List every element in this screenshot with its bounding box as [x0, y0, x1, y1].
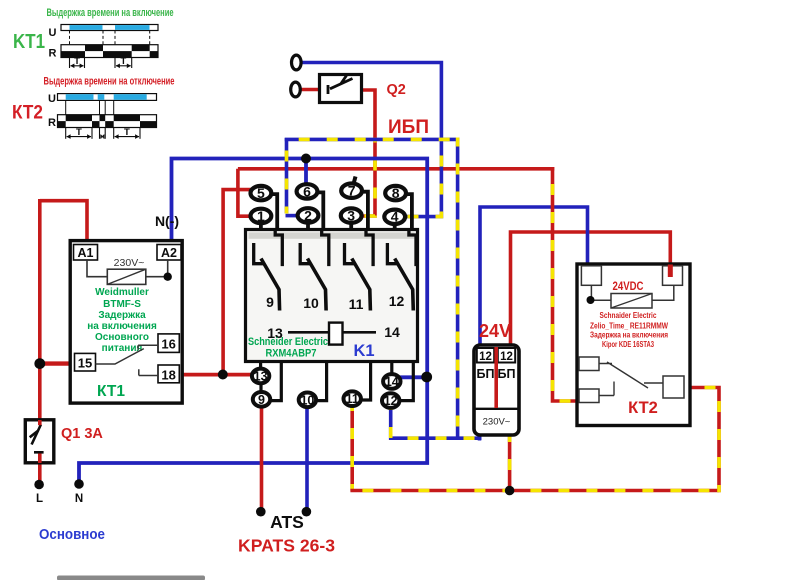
svg-text:230V~: 230V~: [483, 417, 511, 428]
wire red K1 pin1 riser to top rail: [238, 169, 252, 216]
K1 bottom pin 12: [382, 393, 399, 408]
wire red main riser L-Q1-junction-A1: [38, 199, 42, 426]
junction KT1-18 rail: [218, 370, 228, 380]
svg-text:на включения: на включения: [87, 321, 157, 332]
wire blue terminal to bypass rail: [301, 63, 442, 142]
wire cable dashed blue-yellow right drop to PSU230 run: [456, 138, 460, 441]
Q1 wire stub bottom inside: [38, 454, 42, 464]
K1 bottom connector to pin 9: [271, 362, 281, 401]
svg-text:Основного: Основного: [95, 332, 149, 343]
svg-text:N: N: [75, 493, 83, 505]
KT1 coil: [87, 260, 168, 284]
K1 pin 1: [251, 209, 272, 223]
svg-text:Schneider Electric: Schneider Electric: [248, 336, 328, 348]
KT2 coil: [591, 285, 673, 308]
svg-text:БП: БП: [498, 367, 516, 381]
junction neutral to pin14: [421, 372, 432, 383]
K1 bottom pin 14: [383, 374, 400, 389]
KT2 terminal right NO: [663, 376, 684, 398]
scan smudge bottom left: [57, 576, 205, 580]
K1 bottom connector to pin 10: [317, 362, 327, 401]
svg-text:10: 10: [300, 393, 314, 407]
svg-text:24VDC: 24VDC: [613, 281, 644, 293]
svg-text:RXM4ABP7: RXM4ABP7: [266, 348, 317, 360]
KT1 terminal 15: [75, 353, 96, 371]
K1 pin 2: [298, 208, 319, 222]
K1 inner top shading: [249, 232, 415, 238]
K1 pin 3: [341, 208, 362, 222]
svg-text:Weidmuller: Weidmuller: [95, 287, 149, 298]
KT2 coil junction dot: [587, 296, 595, 304]
K1 contact pole: [387, 230, 416, 311]
K1 bottom connector to pin 11: [362, 362, 371, 401]
wire blue K1 pin10 to ATS: [305, 407, 309, 508]
circuit breaker Q2 box: [320, 75, 362, 103]
K1 pin 7 stub: [360, 192, 368, 231]
wire cable dashed blue-yellow K1 pin2 riser: [285, 138, 289, 214]
svg-text:L: L: [36, 493, 43, 505]
svg-text:6: 6: [303, 183, 311, 199]
K1 pin 4: [384, 210, 405, 224]
K1 pin 8 stub: [404, 194, 412, 230]
K1 bottom link 13-9: [259, 383, 262, 392]
wire red riser to K1 pin 5: [223, 190, 251, 375]
KT1 terminal 16: [158, 334, 179, 353]
svg-text:A2: A2: [161, 246, 177, 260]
svg-text:12: 12: [389, 293, 405, 309]
svg-text:R: R: [49, 48, 57, 60]
svg-text:N(-): N(-): [155, 213, 179, 229]
KT1 coil junction dot: [164, 273, 172, 281]
svg-text:1: 1: [257, 208, 265, 224]
timing diagram KT1 (on-delay): [13, 7, 174, 68]
power supply PSU box: [474, 345, 519, 435]
junction phase KT1-15: [34, 358, 45, 369]
wire red terminal to Q2 breaker: [300, 88, 320, 92]
K1 pin 5 stub: [269, 194, 277, 230]
junction PSU 230 drop: [505, 486, 515, 496]
KT1 description text: [87, 287, 157, 354]
svg-text:8: 8: [392, 185, 400, 201]
svg-text:11: 11: [346, 392, 359, 406]
K1 pin 6 stub: [315, 192, 323, 230]
K1 pin 5: [251, 186, 272, 200]
KT2 description text: [590, 311, 668, 349]
svg-text:Основное: Основное: [39, 527, 105, 543]
svg-text:12: 12: [500, 351, 513, 363]
svg-text:15: 15: [78, 356, 92, 371]
svg-text:14: 14: [385, 375, 399, 389]
KT2 wire stub into A1 terminal: [668, 265, 673, 278]
K1 pin 1 stub: [259, 222, 263, 231]
svg-text:КТ2: КТ2: [12, 103, 43, 124]
wire blue K1 pin2 stub: [286, 214, 299, 218]
svg-text:BTMF-S: BTMF-S: [103, 299, 141, 310]
svg-text:3: 3: [347, 208, 355, 224]
svg-text:11: 11: [349, 296, 364, 312]
svg-text:ATS: ATS: [270, 512, 304, 532]
svg-text:K1: K1: [353, 342, 374, 360]
timer relay KT2 box: [577, 264, 690, 426]
junction neutral to pin6: [301, 154, 311, 164]
K1 pin 2 stub: [306, 221, 310, 230]
wire red KT1 pin18 to K1 pin13: [179, 373, 252, 377]
svg-text:Выдержка времени на отключение: Выдержка времени на отключение: [44, 76, 175, 88]
wire cable dashed red-yellow PSU 230V drop: [508, 434, 512, 491]
svg-text:T: T: [76, 127, 82, 138]
K1 contact pole: [300, 230, 329, 311]
wire cable dashed blue-yellow K1 pin12 to PSU 230V: [391, 407, 480, 438]
K1 bottom connector to pin 12: [400, 362, 413, 401]
wire blue K1 pin14 to neutral riser: [399, 375, 428, 379]
wire cable dashed red-yellow KT2 NO to generator run: [684, 388, 720, 493]
circuit breaker Q1 box: [25, 420, 54, 463]
svg-text:24V: 24V: [479, 321, 511, 341]
K1 pin 3 stub: [349, 222, 353, 231]
K1 bottom stub pin 14: [390, 362, 393, 375]
svg-text:KT1: KT1: [13, 31, 45, 53]
svg-text:КТ2: КТ2: [628, 399, 658, 417]
K1 coil 13-14: [288, 323, 376, 345]
KT1 terminal A1: [74, 245, 98, 261]
KT2 terminal bottom left lower: [579, 389, 599, 403]
wire cable dashed blue-yellow top run: [285, 138, 458, 142]
svg-text:T: T: [124, 127, 130, 138]
svg-text:12: 12: [384, 394, 398, 408]
svg-text:Q2: Q2: [387, 82, 406, 98]
svg-text:A1: A1: [78, 246, 94, 260]
wire cable dashed red-yellow top rail drop to KT2: [553, 167, 579, 401]
K1 bottom pin 10: [299, 393, 316, 408]
KT1 terminal A2: [157, 245, 181, 261]
terminal ellipse UPS line: [292, 55, 302, 70]
svg-text:12: 12: [479, 351, 492, 363]
K1 bottom pin 11: [344, 391, 361, 406]
K1 bottom pin 13: [252, 369, 269, 384]
KT2 switch contact: [599, 362, 663, 396]
svg-text:Задержка на включения: Задержка на включения: [590, 331, 668, 340]
svg-text:9: 9: [258, 393, 265, 407]
PSU cell 12 left: [477, 348, 494, 363]
terminal ATS left dot: [256, 507, 266, 517]
svg-text:4: 4: [391, 209, 399, 225]
svg-text:9: 9: [266, 294, 274, 310]
svg-text:T: T: [120, 56, 126, 67]
svg-text:U: U: [49, 27, 57, 39]
KT2 terminal top right: [663, 266, 683, 286]
svg-text:КТ1: КТ1: [97, 383, 125, 400]
K1 pin 7: [341, 184, 362, 198]
svg-text:БП: БП: [477, 367, 495, 381]
svg-text:2: 2: [304, 207, 312, 223]
KT2 terminal top left: [581, 266, 601, 286]
K1 contact pole: [345, 230, 374, 311]
terminal L dot: [34, 480, 44, 490]
relay K1 box: [246, 230, 418, 362]
K1 pin 6: [297, 184, 318, 198]
terminal ellipse UPS phase: [291, 82, 301, 97]
svg-text:13: 13: [254, 369, 268, 383]
KT1 terminal 18: [158, 365, 179, 383]
wire red A1 feed from Q1 riser: [40, 201, 87, 242]
K1 pin 7 hook mark: [354, 177, 356, 185]
wire blue PSU 12V- to KT2 coil A2: [480, 207, 588, 344]
svg-text:U: U: [48, 93, 56, 105]
timing diagram KT2 (off-delay): [12, 76, 175, 139]
svg-text:Zelio_Time_ RE11RMMW: Zelio_Time_ RE11RMMW: [590, 322, 668, 331]
Q1 switch symbol: [32, 425, 44, 453]
terminal ATS right dot: [302, 507, 312, 517]
wire blue neutral chain A2 riser and bottom run: [79, 159, 427, 481]
wire blue junction to K1 pin6: [304, 160, 308, 185]
K1 pin 8: [385, 186, 406, 200]
svg-text:5: 5: [257, 185, 265, 201]
PSU cell 12 right: [498, 348, 515, 363]
K1 bottom stub pin 13: [259, 362, 262, 369]
wire red junction to KT1 pin 15: [38, 361, 76, 365]
svg-text:ИБП: ИБП: [388, 117, 429, 138]
wire cable dashed red-yellow bottom generator run: [350, 489, 719, 493]
svg-text:14: 14: [384, 324, 400, 340]
svg-text:Задержка: Задержка: [98, 310, 146, 321]
svg-text:T: T: [74, 56, 80, 67]
Q2 switch symbol: [328, 76, 353, 95]
svg-text:Schnaider Electric: Schnaider Electric: [600, 311, 657, 320]
K1 pin 4 stub: [393, 223, 397, 231]
PSU divider: [474, 408, 519, 410]
svg-text:Kipor KDE 16STA3: Kipor KDE 16STA3: [602, 340, 654, 349]
wire red Q2 output down to UPS cable: [361, 90, 375, 141]
KT2 terminal bottom left upper: [579, 357, 599, 371]
svg-text:R: R: [48, 117, 56, 129]
wire red PSU 12V+ to KT2 coil A1: [511, 232, 671, 347]
K1 bottom pin 9: [253, 392, 270, 407]
svg-text:230V~: 230V~: [114, 257, 145, 269]
terminal N dot: [74, 479, 84, 489]
KT1 switch contact: [96, 345, 159, 375]
svg-text:10: 10: [303, 295, 319, 311]
Q1 wire stub top inside: [38, 420, 42, 425]
svg-text:16: 16: [161, 337, 175, 352]
wire red K1 pin9 to ATS: [260, 407, 264, 509]
svg-text:Выдержка времени на включение: Выдержка времени на включение: [47, 7, 174, 19]
K1 contact pole: [254, 230, 283, 311]
svg-text:7: 7: [348, 183, 356, 199]
wire cable UPS dashed red-yellow down to K1 pin3: [361, 138, 376, 217]
wire blue stub into PSU bottom: [478, 433, 482, 441]
wire cable dashed red-yellow K1 pin11 drop: [350, 405, 354, 491]
wire red Q1 to L terminal: [38, 454, 42, 481]
wire red top rail to Kipor cable drop: [238, 167, 554, 171]
svg-text:KPATS 26-3: KPATS 26-3: [238, 536, 335, 556]
wire red inside PSU: [494, 347, 498, 408]
timer relay KT1 box: [70, 241, 182, 404]
svg-text:Q1 3A: Q1 3A: [61, 426, 103, 442]
wire cable dashed blue-yellow to K1 pin4: [404, 138, 441, 217]
svg-text:18: 18: [161, 368, 175, 383]
